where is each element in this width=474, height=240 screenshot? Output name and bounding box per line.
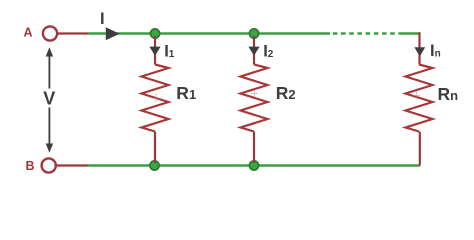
terminal A [43,26,57,40]
svg-text:Rn: Rn [438,84,459,104]
svg-text:A: A [23,26,32,40]
wire B to rail (red) [56,164,88,166]
resistor Rn [406,65,433,132]
resistor R2 [241,65,268,132]
wire branch2 bottom (red) [253,132,255,164]
svg-text:I1: I1 [164,42,175,60]
crosshair mark R2 [251,90,258,98]
wire top rail right solid (green) [398,32,420,35]
current arrow I1 [149,47,160,56]
wire branch n top (red) [418,32,420,64]
current arrow I2 [248,47,259,56]
wire top rail dashed (green) [333,32,397,35]
svg-text:B: B [25,159,34,173]
wire A to rail (red) [57,32,88,34]
svg-text:I2: I2 [263,42,274,60]
svg-text:V: V [43,89,55,109]
svg-text:R1: R1 [176,83,196,103]
voltage arrow V [46,47,53,153]
wire branch1 top (red) [154,36,156,65]
wire branch1 bottom (red) [154,132,156,164]
svg-text:I: I [100,10,105,28]
crosshair mark R1 [153,94,160,102]
current arrow In [414,47,425,56]
node dot top 1 [150,29,159,38]
current arrow I [106,27,120,40]
wire bottom rail (green) [88,164,421,167]
node dot top 2 [249,29,258,38]
wire branch2 top (red) [253,36,255,65]
svg-text:R2: R2 [276,83,296,103]
node dot bottom 2 [249,161,258,170]
crosshair mark Rn [413,92,420,100]
resistor R1 [142,65,169,132]
svg-text:In: In [430,42,441,60]
terminal B [42,158,56,172]
node dot bottom 1 [150,161,159,170]
wire top rail solid (green) [88,32,331,35]
wire branch n bottom (red) [419,132,421,166]
